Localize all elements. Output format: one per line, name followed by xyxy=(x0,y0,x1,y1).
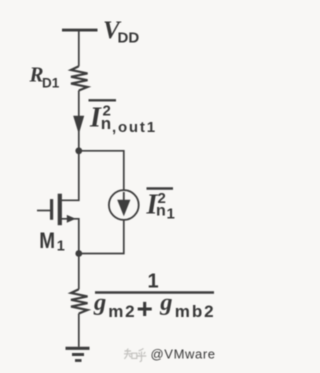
watermark zhi glyph xyxy=(124,349,137,359)
svg-text:n: n xyxy=(156,203,166,220)
resistor 1/(gm2+gmb2) xyxy=(71,289,88,313)
svg-text:D1: D1 xyxy=(42,76,60,91)
current source arrow head xyxy=(117,200,130,217)
svg-text:,out1: ,out1 xyxy=(112,119,157,136)
M1 source arrow xyxy=(67,215,76,223)
label 1/(gm2+gmb2) xyxy=(93,271,215,325)
VDD supply bar xyxy=(62,29,98,32)
svg-text:g: g xyxy=(159,289,172,316)
svg-text:@VMware: @VMware xyxy=(151,347,216,362)
M1 source wire to node B xyxy=(61,219,79,254)
wire node B to bottom resistor xyxy=(78,254,80,290)
label VDD xyxy=(103,17,139,47)
ground xyxy=(66,347,90,350)
label I2n1 xyxy=(146,189,175,223)
wire current source bottom to node B xyxy=(79,220,124,254)
wire resistor to ground xyxy=(78,314,80,347)
noise arrow I_n,out1 head xyxy=(73,116,84,134)
svg-text:mb2: mb2 xyxy=(175,302,216,321)
svg-text:1: 1 xyxy=(167,206,175,223)
node A xyxy=(75,147,82,154)
svg-text:1: 1 xyxy=(148,271,159,293)
current source arrow stem xyxy=(123,192,125,201)
wire VDD to RD1 xyxy=(78,30,80,66)
M1 channel bar xyxy=(58,194,62,226)
wire node A to M1 drain xyxy=(61,151,79,201)
svg-text:n: n xyxy=(101,114,111,133)
svg-text:M: M xyxy=(39,228,55,253)
label I2n,out1 xyxy=(89,100,157,136)
label M1 xyxy=(39,228,65,255)
svg-text:g: g xyxy=(93,289,106,316)
svg-text:m2: m2 xyxy=(108,302,136,321)
watermark hu glyph xyxy=(137,348,147,361)
wire node A to current source top xyxy=(79,151,124,191)
svg-text:DD: DD xyxy=(118,30,140,47)
label RD1 xyxy=(29,63,60,91)
current source I_n1 circle xyxy=(109,190,139,220)
M1 gate bar xyxy=(50,199,53,220)
svg-text:1: 1 xyxy=(57,239,65,255)
gate stub wire xyxy=(37,210,50,212)
wire RD1 to node A xyxy=(78,91,80,151)
resistor RD1 xyxy=(71,66,88,90)
svg-text:+: + xyxy=(137,293,153,324)
node B xyxy=(75,250,82,257)
watermark zhihu @VMware xyxy=(124,347,216,362)
